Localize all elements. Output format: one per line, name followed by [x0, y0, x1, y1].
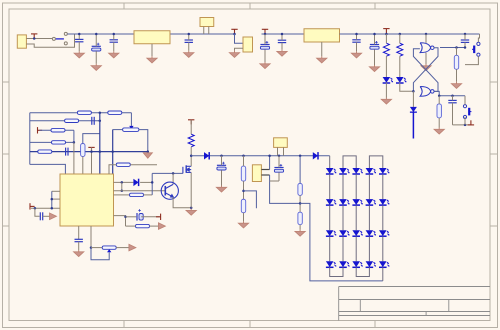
wire row 2	[30, 120, 100, 122]
jumper J1	[200, 18, 214, 27]
wire matrix col2 r3-r4	[342, 236, 344, 261]
node cap drop junction	[34, 207, 37, 210]
node potcol/row5 junction	[111, 150, 114, 153]
resistor R1	[77, 111, 91, 114]
wire matrix bottom U cols 1-2	[330, 267, 343, 276]
diode D2	[133, 179, 138, 186]
wire R7 top link	[83, 134, 100, 144]
node C7 top	[355, 33, 358, 36]
node rail B tick	[264, 33, 267, 36]
capacitor C8 electrolytic	[370, 41, 379, 49]
wire IC bottom pin2	[90, 226, 92, 248]
LED D22 matrix r4c3	[352, 261, 363, 267]
LED D10 matrix r2c1	[326, 199, 337, 205]
capacitor C11 series	[92, 117, 94, 125]
potentiometer RV1 body	[123, 128, 139, 131]
off-sheet arrow right 1	[50, 213, 57, 220]
capacitor C14	[75, 239, 83, 241]
switch S1	[52, 32, 67, 45]
power tick above R10	[383, 29, 389, 34]
node bus/row5 junction	[99, 150, 102, 153]
LED D17 matrix r3c3	[352, 230, 363, 236]
resistor R14	[136, 224, 150, 227]
wire top rail segment B	[262, 33, 305, 35]
node source/emitter	[190, 206, 193, 209]
node row5 tick junction	[90, 150, 93, 153]
node R15/R16 junction	[242, 190, 245, 193]
vertical resistor R7	[81, 144, 85, 157]
wire mid rail	[191, 155, 330, 157]
wire pin1-pin2 link	[121, 182, 123, 190]
LED D14 matrix r2c5	[379, 199, 390, 205]
diode D3	[204, 152, 209, 159]
node left pin col	[51, 198, 54, 201]
capacitor C6	[278, 40, 286, 42]
wire matrix col5 r1-r2	[382, 174, 384, 199]
ground under U1	[147, 56, 157, 63]
wire Q2 drain	[190, 156, 192, 167]
wire RV2 left lead	[91, 247, 102, 249]
node dark row end	[147, 150, 150, 153]
wire drop to C13	[35, 208, 40, 216]
wire diode D1 anode stem	[412, 91, 414, 107]
ground under C7	[351, 51, 361, 58]
potentiometer RV2 body	[102, 246, 116, 249]
ground under U3A	[421, 64, 431, 71]
power tick right of C15	[156, 214, 161, 220]
LED D23 matrix r4c4	[366, 261, 377, 267]
node R13 top	[438, 95, 441, 98]
ground under C14	[74, 250, 84, 257]
pushbutton SW2	[463, 105, 471, 119]
node C10 top	[451, 95, 454, 98]
wire SW1 bottom loop	[465, 56, 478, 64]
power tick row 3	[38, 127, 43, 133]
node CN4 rail junction	[278, 155, 281, 158]
wire IC left pin column	[51, 191, 53, 208]
node pin4 split	[124, 216, 127, 219]
wire CN2 pin2 to ground	[235, 48, 244, 51]
wire U3A supply stem	[425, 34, 427, 43]
power tick row5	[88, 147, 94, 152]
node row4 junction	[73, 141, 76, 144]
node C3 top	[113, 33, 116, 36]
node C8 top	[373, 33, 376, 36]
node row1 bus junction	[99, 111, 102, 114]
off-sheet arrow right 3	[158, 223, 165, 230]
resistor R4	[51, 129, 65, 132]
ground under C6	[277, 50, 287, 57]
ground under C1	[74, 51, 84, 58]
wire D1 cathode stub	[412, 112, 414, 138]
wire left bus vertical	[29, 113, 31, 165]
ground under R12	[451, 82, 461, 89]
wire matrix col2 r2-r3	[342, 205, 344, 230]
ground under R13	[434, 128, 444, 135]
regulator U1	[134, 31, 170, 44]
wire R7 bottom lead	[82, 157, 84, 175]
LED D19 matrix r3c5	[379, 230, 390, 236]
power tick at rail A end	[231, 29, 237, 34]
wire latch cross feedback	[413, 48, 438, 91]
wire row 5 dark	[30, 151, 148, 153]
wire matrix col1 top stub	[329, 156, 331, 168]
wire IC right pin2 base path	[114, 190, 165, 192]
wire RV1 left lead	[113, 129, 123, 131]
ground under C3	[109, 51, 119, 58]
wire CN3 pin2	[261, 174, 269, 176]
wire rail to SW1	[478, 34, 479, 42]
wire IC left pin2	[52, 198, 60, 200]
LED LED1	[383, 77, 394, 83]
node sense junction	[299, 202, 302, 205]
LED D12 matrix r2c3	[352, 199, 363, 205]
wire bus column x=99.8	[99, 113, 101, 174]
wire U1 ground stem	[151, 44, 153, 57]
transistor Q1	[161, 182, 178, 199]
node R15 top	[242, 155, 245, 158]
wire matrix top U cols 4-5	[369, 156, 382, 168]
resistor R3	[65, 119, 79, 122]
ground under C2	[91, 64, 101, 71]
node CN3 rail junction	[268, 155, 271, 158]
wire CN1 pin1	[26, 38, 52, 40]
LED D20 matrix r4c1	[326, 261, 337, 267]
wire row 3	[40, 129, 74, 131]
wire matrix col1 r3-r4	[329, 236, 331, 261]
potentiometer RV1 wiper arrow	[129, 126, 133, 129]
wire D2 cathode to column	[140, 181, 152, 183]
wire CN4 pin1 stub	[277, 147, 279, 155]
LED D6 matrix r1c2	[339, 168, 350, 174]
connector CN1	[17, 35, 26, 48]
resistor R5	[52, 141, 66, 144]
wire LED2 cathode to latch	[400, 82, 414, 91]
capacitor C15 electrolytic	[137, 209, 143, 221]
capacitor C9	[461, 40, 469, 42]
wire matrix col3 r1-r2	[355, 174, 357, 199]
node gate U3A supply	[425, 33, 428, 36]
wire row 4	[30, 141, 74, 143]
node R10 top	[385, 33, 388, 36]
connector CN2	[243, 37, 253, 52]
node R11 top	[399, 33, 402, 36]
node column/diode	[151, 181, 154, 184]
wire RV1 right lead	[139, 130, 148, 152]
node pin1-pin2 link top	[121, 181, 124, 184]
ground under C5	[260, 62, 270, 69]
wire node to SW2	[464, 96, 466, 105]
resistor R12	[454, 55, 458, 69]
node latch/LED2/diode junction	[412, 90, 415, 93]
LED LED2	[396, 77, 407, 83]
pushbutton SW1	[472, 42, 480, 56]
wire top rail segment C	[340, 33, 480, 35]
wire R14 left lead	[126, 225, 136, 227]
wire pot-left column x=112.7	[112, 130, 114, 175]
LED D24 matrix r4c5	[379, 261, 390, 267]
node C1 top	[78, 33, 81, 36]
capacitor C5 electrolytic	[260, 41, 269, 49]
wire C13 to arrow	[43, 215, 50, 217]
off-sheet arrow down at row5 end	[143, 153, 152, 158]
wire matrix top U cols 2-3	[343, 156, 356, 168]
LED D16 matrix r3c2	[339, 230, 350, 236]
connector CN3	[252, 165, 261, 182]
wire stub from divider	[244, 191, 257, 208]
node R17 top	[299, 155, 302, 158]
node rail A end	[233, 33, 236, 36]
capacitor C2 electrolytic	[92, 43, 101, 51]
wire matrix col1 r1-r2	[329, 174, 331, 199]
ground under CN2	[229, 51, 239, 58]
wire row1 drop to pot wiper	[130, 113, 132, 126]
inductor L1	[188, 134, 194, 147]
wire J1 pin2 stub	[208, 27, 210, 35]
regulator U2	[304, 29, 340, 42]
wire tick to L1	[190, 120, 192, 134]
wire latch cross feedback 2	[413, 49, 438, 92]
wire matrix col5 r2-r3	[382, 205, 384, 230]
resistor R2	[108, 111, 122, 114]
wire matrix bottom U cols 3-4	[356, 267, 369, 276]
capacitor C1	[75, 39, 83, 41]
wire CN1 pin2	[26, 34, 74, 47]
node C6 top	[281, 33, 284, 36]
wire IC left pin3	[31, 207, 60, 209]
wire U3B output node	[434, 91, 439, 95]
wire L1 to node	[190, 147, 192, 156]
power tick above L1	[188, 120, 194, 125]
capacitor C3	[110, 40, 118, 42]
LED D7 matrix r1c3	[352, 168, 363, 174]
wire matrix col2 r1-r2	[342, 174, 344, 199]
power tick SW2 return	[468, 120, 474, 125]
wire IC right pin1 diode path	[114, 181, 134, 183]
wire SW2 to bottom rail	[464, 117, 466, 125]
node C2 top	[95, 33, 98, 36]
wire matrix col5 bottom	[382, 267, 384, 281]
node pot RV2 junction	[90, 246, 93, 249]
resistor R13	[437, 104, 441, 118]
MOSFET Q2	[183, 165, 191, 173]
LED D21 matrix r4c2	[339, 261, 350, 267]
node boost switch	[190, 154, 193, 157]
wire R8 to column	[144, 194, 153, 196]
LED D11 matrix r2c2	[339, 199, 350, 205]
node left pin3	[51, 207, 54, 210]
LED D13 matrix r2c4	[366, 199, 377, 205]
capacitor C12 series	[66, 148, 68, 156]
wire collector stem	[172, 173, 174, 184]
resistor R16	[241, 199, 245, 213]
off-sheet arrow right 2	[129, 244, 136, 251]
wire U3A output node	[440, 47, 465, 49]
wire RV2 wiper loop	[91, 248, 109, 260]
wire matrix col1 r2-r3	[329, 205, 331, 230]
resistor R6	[38, 150, 52, 153]
resistor R15	[241, 166, 245, 181]
wire IC left pin1	[52, 190, 60, 192]
wire column x=152.2	[151, 173, 153, 195]
node C9 bottom junction	[464, 46, 467, 49]
node C16 top	[220, 155, 223, 158]
node C4 top	[188, 33, 191, 36]
wire IC pin top2 drop	[73, 142, 75, 174]
wire Q1 emitter down	[173, 197, 191, 208]
wire R9 right lead	[130, 164, 157, 166]
capacitor C10	[448, 100, 456, 102]
LED D8 matrix r1c4	[366, 168, 377, 174]
resistor R18	[298, 212, 302, 225]
ground under LED1	[381, 98, 391, 105]
IC U4	[60, 174, 114, 226]
ground under Q1/Q2	[186, 209, 196, 216]
diode D4	[313, 152, 318, 159]
node SW2 bottom junction	[464, 124, 467, 127]
power tick IC left	[30, 203, 35, 209]
capacitor C7	[352, 40, 360, 42]
diode D1	[410, 107, 417, 112]
wire LED1 cathode	[385, 82, 387, 97]
wire main top rail segment A	[67, 33, 234, 35]
capacitor C16 electrolytic	[217, 162, 226, 170]
resistor R8	[130, 193, 144, 196]
wire CN4 pin2 stub	[283, 147, 285, 155]
connector CN4	[274, 138, 288, 148]
power tick VIN	[31, 34, 37, 39]
wire pin4 to C15	[126, 216, 137, 218]
wire IC bottom pin1	[78, 226, 80, 239]
wire Q2 source	[190, 172, 192, 207]
wire U2 ground stem	[321, 42, 323, 56]
wire C15 to tick	[141, 216, 159, 218]
wire RV2 right lead	[116, 247, 129, 249]
resistor R17	[298, 183, 302, 195]
wire feed to CN2	[235, 34, 244, 43]
wire matrix col3 r2-r3	[355, 205, 357, 230]
wire CN3 pin1 to rail	[269, 156, 271, 170]
wire J1 pin1 stub	[203, 27, 205, 35]
wire tick stem to IC	[91, 147, 93, 174]
ground under R18	[295, 230, 305, 237]
ground under R16	[238, 221, 248, 228]
wire IC right pin3 resistor path	[114, 194, 130, 196]
resistor R9 gate pullup	[116, 163, 130, 166]
node gate/collector junction	[172, 172, 175, 175]
ground under C16	[216, 186, 226, 193]
gate U3B	[420, 87, 434, 97]
wire row 1	[30, 112, 132, 114]
gate U3A	[420, 43, 434, 53]
power tick 5V rail B	[262, 29, 268, 34]
wire matrix col3 r3-r4	[355, 236, 357, 261]
wire matrix col4 r3-r4	[368, 236, 370, 261]
wire CN3 pin1	[261, 169, 269, 171]
resistor R11	[397, 43, 403, 56]
wire IC pin top1 drop	[30, 164, 66, 174]
ground under U2	[317, 56, 327, 63]
wire U3A ground stem	[425, 53, 427, 64]
capacitor C17 electrolytic	[274, 164, 283, 172]
wire LED return	[300, 203, 383, 281]
node C9 top	[464, 33, 467, 36]
wire matrix col4 r2-r3	[368, 205, 370, 230]
potentiometer RV2 wiper arrow	[107, 249, 111, 252]
LED D5 matrix r1c1	[326, 168, 337, 174]
wire matrix col5 r3-r4	[382, 236, 384, 261]
wire matrix col4 r1-r2	[368, 174, 370, 199]
capacitor C4	[185, 40, 193, 42]
wire SW2 bottom rail	[453, 124, 471, 126]
wire C17 bottom link	[270, 180, 279, 182]
wire CN3 pin2 down	[270, 175, 301, 203]
ground under C4	[184, 51, 194, 58]
node pin1-pin2 link bottom	[121, 189, 124, 192]
ground under C8	[369, 65, 379, 72]
wire gate link horizontal	[152, 172, 183, 174]
wire IC right pin4	[114, 216, 126, 227]
node R12 top	[455, 46, 458, 49]
capacitor C13 series	[40, 212, 42, 220]
resistor R10	[383, 43, 389, 56]
wire R9 left lead to IC	[109, 165, 116, 174]
LED D9 matrix r1c5	[379, 168, 390, 174]
node pin1/VIN junction	[33, 37, 36, 40]
LED D15 matrix r3c1	[326, 230, 337, 236]
LED D18 matrix r3c4	[366, 230, 377, 236]
node row2 end	[99, 120, 102, 123]
wire row3 drop	[73, 130, 75, 142]
wire R14 to arrow	[150, 225, 159, 227]
